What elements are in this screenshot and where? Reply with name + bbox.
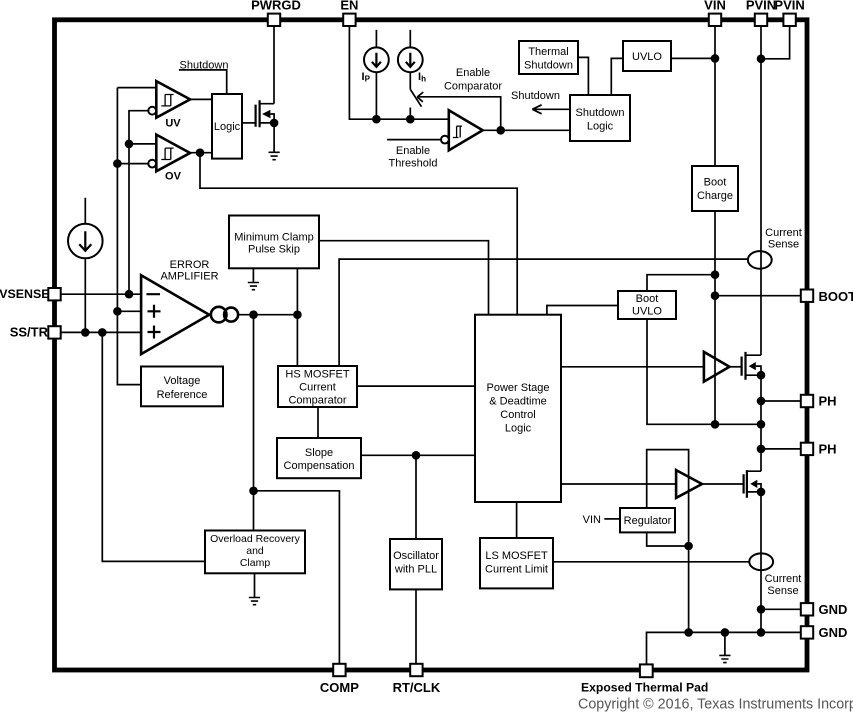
- svg-text:Ih: Ih: [418, 71, 426, 84]
- svg-text:Regulator: Regulator: [624, 515, 672, 527]
- svg-text:Sense: Sense: [768, 239, 799, 251]
- wire min clamp to power stage: [319, 241, 489, 315]
- svg-text:PH: PH: [819, 394, 837, 409]
- junction LS source body: [757, 488, 766, 497]
- ground below PWRGD FET: [269, 123, 280, 160]
- junction HS source body: [757, 371, 766, 380]
- wire oscillator to slope node and RT/CLK pin: [415, 455, 417, 664]
- svg-text:Shutdown: Shutdown: [524, 60, 573, 72]
- svg-text:Current: Current: [765, 227, 802, 239]
- wire PH pin 1: [761, 400, 801, 402]
- svg-text:OV: OV: [165, 171, 182, 183]
- driver HS gate buffer: [704, 352, 730, 382]
- svg-text:Clamp: Clamp: [240, 557, 271, 569]
- wire HS comparator to power stage: [357, 385, 475, 387]
- junction gnd rail center: [721, 628, 730, 637]
- wire enable comparator output to shutdown logic: [483, 129, 570, 131]
- junction slope oscillator: [412, 451, 421, 460]
- svg-text:Thermal: Thermal: [528, 46, 568, 58]
- svg-text:SS/TR: SS/TR: [10, 324, 49, 339]
- box UVLO: [623, 41, 671, 71]
- ground at bottom rail: [719, 632, 730, 662]
- wire thermal shutdown to shutdown logic: [578, 57, 588, 95]
- wire boot UVLO top tap: [647, 275, 715, 291]
- svg-text:with PLL: with PLL: [394, 564, 437, 576]
- junction regulator rail: [684, 542, 693, 551]
- box HS mosfet current comparator: [278, 366, 357, 407]
- wire Ip source stub and to rail: [375, 30, 377, 119]
- wire VIN pin to boot charge: [714, 22, 716, 166]
- comparator Enable: [441, 110, 483, 150]
- pin SS/TR: [48, 326, 60, 338]
- logic box: [212, 94, 242, 159]
- wire UV+ input: [117, 87, 156, 89]
- wire shutdown logic to UVLO: [611, 58, 623, 95]
- svg-text:and: and: [246, 545, 264, 557]
- junction BOOT: [711, 291, 720, 300]
- svg-text:Minimum Clamp: Minimum Clamp: [234, 232, 313, 244]
- ground below overload recovery: [249, 573, 260, 604]
- svg-text:Sense: Sense: [767, 585, 798, 597]
- junction switch rail: [406, 115, 415, 124]
- wire shutdown underline into logic: [179, 70, 227, 94]
- current source Ip: [364, 47, 389, 72]
- wire UVLO to VIN line: [671, 57, 715, 59]
- wire LS driver return to gnd rail: [688, 546, 690, 632]
- svg-text:VSENSE: VSENSE: [0, 287, 50, 301]
- junction VSENSE: [125, 290, 134, 299]
- junction GND pin 1: [757, 605, 766, 614]
- wire regulator supply loop: [647, 450, 689, 546]
- svg-text:Shutdown: Shutdown: [511, 90, 560, 102]
- box voltage reference: [141, 367, 223, 407]
- svg-text:UVLO: UVLO: [632, 306, 662, 318]
- wire SS/TR to overload recovery: [102, 332, 205, 561]
- box boot charge: [692, 166, 738, 211]
- svg-text:Voltage: Voltage: [164, 375, 201, 387]
- wire gnd rail to GND pin 2 and thermal pad: [647, 632, 801, 664]
- svg-text:Copyright © 2016, Texas Instru: Copyright © 2016, Texas Instruments Inco…: [578, 697, 853, 713]
- svg-text:PVIN: PVIN: [774, 0, 804, 13]
- box power stage and deadtime control logic: [475, 315, 561, 502]
- svg-text:Overload Recovery: Overload Recovery: [210, 533, 301, 545]
- wire slope compensation to power stage: [361, 454, 475, 456]
- svg-text:AMPLIFIER: AMPLIFIER: [160, 271, 218, 283]
- junction PH rail right: [757, 420, 766, 429]
- svg-text:COMP: COMP: [320, 680, 359, 695]
- pin VSENSE: [48, 288, 60, 300]
- svg-text:Boot: Boot: [704, 177, 727, 189]
- junction PWRGD FET source: [270, 119, 279, 128]
- transistor PWRGD FET: [256, 100, 275, 127]
- junction OV output: [196, 148, 205, 157]
- svg-text:PH: PH: [819, 442, 837, 457]
- svg-text:Logic: Logic: [587, 121, 614, 133]
- junction PH pin 1: [757, 397, 766, 406]
- svg-text:Shutdown: Shutdown: [180, 59, 229, 71]
- wire OV comparator output to logic: [190, 152, 212, 154]
- transistor LS mosfet: [744, 470, 761, 498]
- transistor HS mosfet: [742, 352, 761, 380]
- junction SS current source: [81, 328, 90, 337]
- box oscillator with PLL: [390, 539, 442, 589]
- junction gnd rail right: [757, 628, 766, 637]
- wire enable threshold stub: [387, 139, 442, 141]
- svg-text:UV: UV: [165, 117, 181, 129]
- svg-text:Power Stage: Power Stage: [487, 382, 550, 394]
- current sense HS ellipse: [748, 251, 772, 269]
- comparator OV: [148, 135, 190, 183]
- wire UV comparator output to logic: [190, 98, 212, 100]
- svg-text:UVLO: UVLO: [632, 51, 662, 63]
- wire HS driver gate: [730, 366, 742, 368]
- wire reference distribution vertical: [117, 88, 148, 385]
- svg-text:Current: Current: [765, 573, 802, 585]
- svg-text:IP: IP: [362, 71, 371, 84]
- box overload recovery and clamp: [205, 531, 305, 574]
- svg-text:LS MOSFET: LS MOSFET: [485, 550, 548, 562]
- svg-text:GND: GND: [819, 625, 848, 640]
- wire boot charge down through HS driver to PH rail: [714, 211, 716, 424]
- wire VSENSE net: [61, 111, 157, 295]
- wire GND pin 1: [761, 608, 801, 610]
- svg-text:GND: GND: [819, 602, 848, 617]
- junction boot UVLO top: [711, 270, 720, 279]
- pin PH 2: [801, 443, 813, 455]
- svg-text:Enable: Enable: [396, 145, 430, 157]
- svg-text:Current: Current: [299, 382, 336, 394]
- wire power stage to LS mosfet current limit: [516, 502, 518, 538]
- wire power stage to LS driver: [561, 483, 676, 485]
- pin VIN: [709, 14, 721, 26]
- wire SS current source: [84, 198, 86, 333]
- svg-text:Oscillator: Oscillator: [393, 550, 439, 562]
- wire boot UVLO left to power stage: [547, 306, 618, 315]
- junction EA plus ref: [113, 307, 122, 316]
- svg-text:PWRGD: PWRGD: [251, 0, 301, 13]
- pin PVIN 2: [783, 14, 795, 26]
- wire power stage to HS driver: [561, 366, 704, 368]
- wire shutdown arrow from shutdown logic: [532, 105, 570, 114]
- ground below minimum clamp: [248, 268, 259, 289]
- box minimum clamp pulse skip: [229, 216, 319, 269]
- box thermal shutdown: [519, 41, 578, 74]
- pin GND 2: [801, 626, 813, 638]
- svg-text:VIN: VIN: [583, 514, 601, 526]
- svg-text:HS MOSFET: HS MOSFET: [285, 369, 349, 381]
- junction PH rail left: [711, 420, 720, 429]
- svg-text:Threshold: Threshold: [389, 158, 438, 170]
- wire OV output branch to power stage: [200, 153, 517, 315]
- svg-text:Charge: Charge: [697, 190, 733, 202]
- error amplifier output gm circles: [211, 307, 238, 323]
- driver LS gate buffer: [676, 470, 702, 498]
- svg-text:Logic: Logic: [214, 121, 241, 133]
- box slope compensation: [277, 438, 361, 478]
- wire PWRGD pin to FET drain: [273, 22, 275, 104]
- pin PWRGD: [268, 14, 280, 26]
- svg-text:Current Limit: Current Limit: [485, 564, 548, 576]
- pin EN: [343, 14, 355, 26]
- box regulator: [620, 508, 675, 532]
- junction gnd rail left: [684, 628, 693, 637]
- junction EA output COMP: [249, 310, 258, 319]
- svg-text:Logic: Logic: [505, 423, 532, 435]
- wire LS current limit to LS current sense: [553, 561, 749, 563]
- pin GND 1: [801, 603, 813, 615]
- svg-text:EN: EN: [340, 0, 358, 13]
- box LS mosfet current limit: [480, 538, 553, 588]
- comparator UV: [148, 81, 190, 129]
- svg-text:RT/CLK: RT/CLK: [393, 680, 441, 695]
- pin PH 1: [801, 395, 813, 407]
- svg-text:Comparator: Comparator: [288, 395, 346, 407]
- box boot UVLO: [618, 291, 676, 319]
- current sense LS ellipse: [749, 553, 773, 570]
- pin BOOT: [801, 290, 813, 302]
- svg-text:Boot: Boot: [636, 293, 659, 305]
- wire feedback from comparator output to switch with arrow: [417, 92, 501, 130]
- junction PH pin 2: [757, 445, 766, 454]
- svg-text:PVIN: PVIN: [746, 0, 776, 13]
- svg-text:& Deadtime: & Deadtime: [489, 396, 546, 408]
- svg-text:BOOT: BOOT: [819, 289, 853, 304]
- svg-text:Compensation: Compensation: [284, 460, 355, 472]
- svg-text:Comparator: Comparator: [444, 81, 502, 93]
- pin RT/CLK: [410, 664, 422, 676]
- svg-text:VIN: VIN: [704, 0, 726, 13]
- junction PVIN: [757, 55, 766, 64]
- svg-text:Pulse Skip: Pulse Skip: [248, 244, 300, 256]
- wire COMP net: [254, 315, 340, 664]
- wire LS source through current sense to gnd: [760, 492, 762, 633]
- wire error amp output: [238, 314, 297, 316]
- wire Ih source stub: [409, 30, 411, 90]
- op-amp error amplifier: [141, 275, 209, 354]
- wire VIN label to regulator: [604, 518, 620, 520]
- wire PH pin 2: [761, 448, 801, 450]
- wire PVIN pin down through current sense to HS drain: [760, 22, 762, 355]
- pin PVIN 1: [755, 14, 767, 26]
- svg-text:Reference: Reference: [157, 389, 208, 401]
- svg-text:Enable: Enable: [456, 67, 490, 79]
- wire EN pin down and right to enable comparator: [349, 22, 448, 119]
- wire BOOT pin: [715, 295, 801, 297]
- current source Ih: [398, 47, 423, 72]
- wire HS comparator to slope compensation: [317, 407, 319, 438]
- wire PVIN2 pin joining PVIN: [761, 22, 790, 59]
- junction COMP corner: [249, 487, 258, 496]
- wire logic to PWRGD FET gate: [242, 122, 256, 124]
- junction VIN UVLO: [711, 54, 720, 63]
- switch blade Ih: [410, 90, 421, 120]
- junction OV plus UV minus: [125, 140, 134, 149]
- wire LS driver gate: [702, 483, 744, 485]
- box shutdown logic: [570, 95, 630, 141]
- junction Ip rail: [372, 115, 381, 124]
- pin COMP: [333, 664, 345, 676]
- svg-text:Control: Control: [500, 409, 535, 421]
- wire SS/TR net: [61, 331, 142, 333]
- junction OV minus ref: [113, 159, 122, 168]
- wire HS current sense line: [339, 259, 748, 366]
- pin exposed thermal pad: [640, 664, 653, 677]
- current source SS: [68, 224, 103, 259]
- junction SS overload: [98, 328, 107, 337]
- junction enable comparator output: [496, 126, 505, 135]
- svg-text:ERROR: ERROR: [170, 259, 210, 271]
- svg-text:Shutdown: Shutdown: [576, 107, 625, 119]
- svg-text:Exposed Thermal Pad: Exposed Thermal Pad: [581, 681, 708, 695]
- wire boot UVLO bottom to PH rail: [647, 319, 761, 424]
- wire min clamp to HS comparator vertical: [296, 268, 298, 366]
- junction EA output min clamp: [293, 310, 302, 319]
- wire PH net HS source to LS drain: [760, 375, 762, 471]
- svg-text:Slope: Slope: [305, 447, 333, 459]
